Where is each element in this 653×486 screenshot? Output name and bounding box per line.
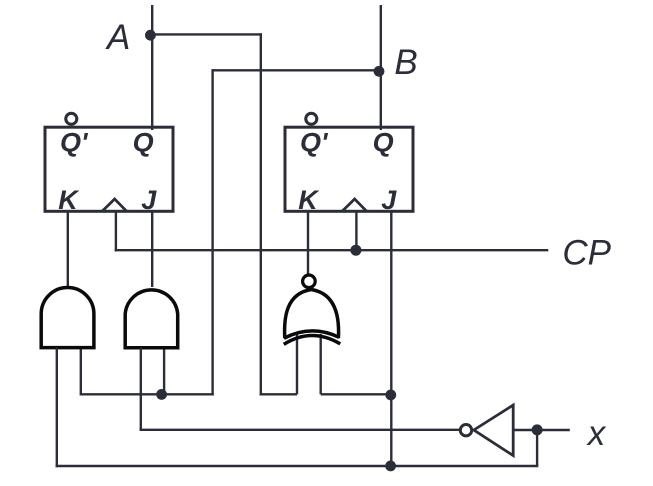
AND gate G1 (output to K of FF1, drawn upside-down) bbox=[41, 288, 94, 348]
wire: XNOR right input horizontal bbox=[321, 393, 392, 395]
wire: AND2 left input down to inverter output run bbox=[140, 348, 142, 431]
wire: FF2 K input from XNOR output bubble bbox=[307, 211, 309, 276]
junction dot: CP to FF2 clock bbox=[350, 245, 361, 256]
junction dot: x line to XNOR right input bbox=[385, 390, 396, 401]
wire: B feedback bottom run to AND1 right input bbox=[81, 393, 214, 395]
wire: B feedback vertical bbox=[211, 69, 213, 395]
FF1 Q' complement bubble bbox=[66, 113, 77, 124]
XNOR output bubble bbox=[303, 275, 316, 288]
svg-text:B: B bbox=[394, 43, 417, 82]
wire: node B horizontal to left column bbox=[213, 69, 381, 71]
AND gate G2 (output to J of FF1, drawn upside-down) bbox=[125, 290, 178, 348]
wire: inverter output run to AND2 left input bbox=[140, 429, 461, 431]
inverter bubble bbox=[460, 425, 471, 436]
node A junction dot bbox=[145, 30, 156, 41]
wire: A feedback to XNOR left input bbox=[260, 393, 297, 395]
wire: XNOR left input riser bbox=[296, 334, 298, 394]
FF2 Q' complement bubble bbox=[306, 113, 317, 124]
wire: XNOR right input riser bbox=[320, 334, 322, 394]
wire: inverter input from x node bbox=[513, 429, 570, 431]
svg-text:Q': Q' bbox=[60, 128, 89, 158]
XNOR gate body (output to K of FF2, drawn upside-down) bbox=[285, 290, 339, 339]
wire: FF2 Q output up to top edge (B line) bbox=[380, 5, 382, 130]
wire: FF1 clock riser bbox=[115, 211, 117, 251]
XNOR body input-side curve bbox=[284, 331, 339, 338]
junction dot: x input node bbox=[532, 424, 543, 435]
svg-text:Q': Q' bbox=[300, 128, 329, 158]
FF1 clock edge triangle bbox=[102, 199, 127, 211]
wire: FF1 K input from AND1 output bbox=[67, 211, 69, 287]
wire: x node down to bottom run bbox=[536, 430, 538, 466]
wire: FF1 Q output up to top edge (A line) bbox=[151, 5, 153, 130]
FF2 clock edge triangle bbox=[342, 199, 367, 211]
wire: bottom x run bbox=[56, 465, 539, 467]
wire: FF2 J input / x line down to bottom run bbox=[390, 211, 392, 466]
XNOR extra XOR curve bbox=[284, 336, 340, 345]
svg-text:J: J bbox=[141, 185, 157, 215]
flip-flop FF2 (B) box bbox=[285, 127, 413, 211]
wire: AND1 left input down to bottom x run bbox=[56, 348, 58, 468]
svg-text:Q: Q bbox=[373, 128, 394, 158]
wire: FF1 J input from AND2 output bbox=[151, 211, 153, 287]
svg-text:A: A bbox=[105, 18, 130, 57]
node B junction dot bbox=[374, 66, 385, 77]
svg-text:K: K bbox=[298, 185, 320, 215]
wire: AND2 right input riser bbox=[163, 348, 165, 395]
svg-text:K: K bbox=[58, 185, 80, 215]
wire: CP horizontal line bbox=[115, 249, 549, 251]
flip-flop FF1 (A) box bbox=[45, 127, 173, 211]
svg-text:Q: Q bbox=[133, 128, 154, 158]
svg-text:x: x bbox=[586, 414, 607, 453]
svg-text:CP: CP bbox=[562, 234, 611, 273]
wire: AND1 right input riser bbox=[80, 348, 82, 396]
junction dot: B run to AND2 right input bbox=[156, 389, 167, 400]
wire: FF2 clock riser bbox=[355, 211, 357, 250]
junction dot: x line to bottom run bbox=[385, 461, 396, 472]
inverter triangle bbox=[474, 405, 513, 456]
svg-text:J: J bbox=[381, 185, 397, 215]
wire: node A horizontal to feedback column bbox=[152, 33, 262, 35]
wire: A feedback vertical bbox=[260, 33, 262, 395]
